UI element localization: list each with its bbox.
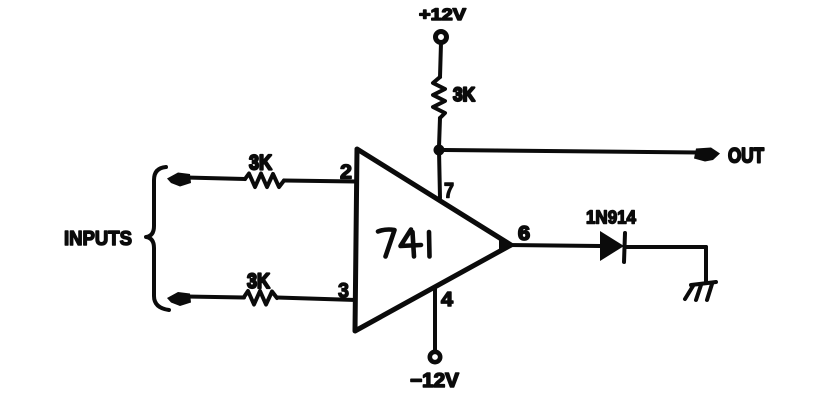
svg-text:3K: 3K [247, 270, 270, 293]
svg-text:3K: 3K [249, 152, 272, 175]
svg-text:4: 4 [441, 289, 454, 311]
svg-text:3: 3 [338, 280, 349, 303]
svg-text:INPUTS: INPUTS [64, 228, 132, 250]
svg-text:6: 6 [518, 223, 530, 245]
svg-text:−12V: −12V [410, 370, 460, 392]
svg-text:2: 2 [340, 162, 352, 184]
svg-text:+12V: +12V [419, 5, 467, 24]
svg-text:3K: 3K [453, 85, 475, 106]
svg-text:1N914: 1N914 [586, 208, 636, 228]
svg-text:OUT: OUT [728, 145, 764, 168]
svg-text:7: 7 [444, 180, 454, 203]
